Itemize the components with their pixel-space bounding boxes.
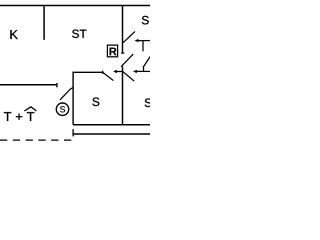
wall bottom of room S xyxy=(73,124,150,126)
contact tick at upper wall end xyxy=(121,52,124,54)
socket outlet S (circled) xyxy=(56,103,68,115)
boundary dashed line xyxy=(0,125,73,140)
label T + T-hat xyxy=(4,112,11,121)
switch blade Q2 xyxy=(121,54,132,66)
wall bottom-left xyxy=(0,84,56,86)
wall divider K/ST xyxy=(43,6,45,40)
room label S bottom-right (cut by edge) xyxy=(145,99,152,107)
switch blade Q4 xyxy=(143,57,150,67)
switch blade Q5 xyxy=(60,88,73,100)
receiver box R xyxy=(107,45,117,57)
arrow symbol A1 (bar, left arrowhead, stem) xyxy=(137,41,150,52)
circumflex hat over second T xyxy=(24,107,36,111)
wall top outer xyxy=(0,5,150,7)
switch blade Q1 xyxy=(123,32,134,43)
room S left and top walls xyxy=(73,72,103,124)
room label K xyxy=(10,30,17,39)
contact tick at wall end xyxy=(56,83,58,87)
wall outer bottom right xyxy=(73,133,150,135)
arrow A2 (points left from main wall) xyxy=(116,71,123,73)
room label ST xyxy=(72,30,79,38)
wall main vertical lower segment xyxy=(122,66,124,124)
switch blade Q3 xyxy=(123,72,134,81)
arrow symbol A3 (bar, left arrowhead, contact tick) xyxy=(136,66,150,71)
wall main vertical upper segment xyxy=(122,6,124,54)
room label S center xyxy=(92,98,99,106)
contact tick at room S door xyxy=(102,71,104,74)
door blade Q6 (room S entry) xyxy=(103,72,113,80)
room label S top-right xyxy=(142,16,149,24)
